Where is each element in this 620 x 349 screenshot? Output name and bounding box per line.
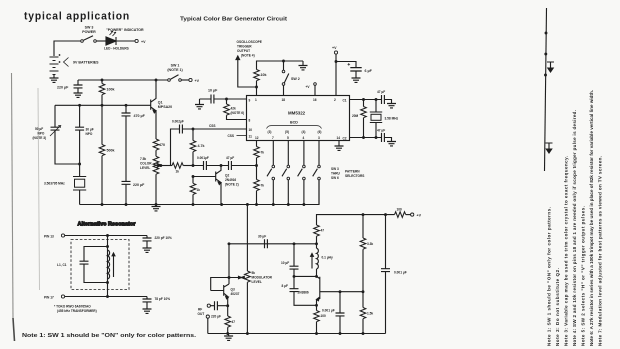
svg-text:0.001 µF: 0.001 µF — [322, 309, 335, 313]
svg-text:SW 1: SW 1 — [171, 64, 180, 68]
capacitor C1 tank — [80, 247, 108, 283]
wire CSS to pin 10 — [193, 128, 247, 130]
resistor 470 emitter — [153, 139, 159, 157]
capacitor 6uF top — [336, 62, 362, 79]
svg-text:30 µF: 30 µF — [86, 128, 94, 132]
node q2 collector — [220, 164, 223, 167]
svg-text:1k: 1k — [176, 170, 180, 174]
inductor 0.1uHy variable — [311, 244, 319, 277]
svg-text:RF: RF — [198, 308, 202, 312]
svg-text:COLOR: COLOR — [140, 162, 152, 166]
resistor 7k upper — [254, 141, 260, 166]
svg-text:1: 1 — [255, 98, 257, 102]
svg-text:4: 4 — [303, 136, 305, 140]
wire pin C2 right — [350, 137, 382, 139]
svg-text:220 µF: 220 µF — [211, 315, 221, 319]
scan line left edge dark tail — [13, 318, 15, 341]
wire +V rail modulator — [317, 215, 395, 225]
svg-text:(6): (6) — [318, 130, 322, 134]
svg-text:20M: 20M — [352, 114, 359, 118]
capacitor 0.002uF feedback — [171, 125, 194, 166]
svg-text:12: 12 — [255, 136, 259, 140]
capacitor 0.001uF q2 — [193, 161, 221, 170]
wire 30uF line — [228, 243, 317, 245]
node crystal top — [78, 163, 81, 166]
ground IC pin14 — [335, 141, 344, 151]
svg-text:3.58 MHz: 3.58 MHz — [385, 117, 399, 121]
svg-text:2: 2 — [334, 98, 336, 102]
wire rf bottom bus — [208, 333, 386, 335]
resistor 100 horizontal — [395, 212, 406, 218]
wire resonator vertical — [107, 236, 109, 297]
svg-text:7k: 7k — [261, 151, 265, 155]
svg-text:220 pF 10%: 220 pF 10% — [155, 236, 173, 240]
resistor 100k — [99, 80, 105, 105]
wire +V to IC — [335, 54, 337, 95]
node sw2 top — [282, 60, 285, 63]
svg-text:40237: 40237 — [231, 292, 240, 296]
svg-text:47: 47 — [321, 229, 325, 233]
svg-text:3.3k: 3.3k — [367, 242, 373, 246]
capacitor 220uF rf out — [210, 301, 227, 310]
ground 6uF — [352, 78, 361, 82]
svg-text:2N3866: 2N3866 — [298, 291, 309, 295]
resistor 1k horizontal — [172, 163, 193, 169]
wire to pin9 — [227, 98, 247, 100]
capacitor variable 50uF NPO — [50, 105, 80, 164]
svg-text:NPO: NPO — [86, 132, 93, 136]
terminal +V rail — [406, 213, 414, 216]
wire pin C1 right — [350, 99, 382, 101]
terminal +V pin16 stub — [314, 83, 317, 96]
svg-text:2N4916: 2N4916 — [225, 178, 236, 182]
capacitor 10uF pin9 — [200, 95, 227, 105]
svg-text:500k: 500k — [107, 149, 115, 153]
svg-text:47 µF: 47 µF — [377, 129, 385, 133]
svg-text:50 µF: 50 µF — [35, 127, 43, 131]
terminal RF OUT top — [207, 304, 210, 307]
svg-text:(3): (3) — [268, 130, 272, 134]
svg-text:10 µF: 10 µF — [281, 261, 289, 265]
ground 220pF — [143, 248, 152, 252]
svg-text:MM5322: MM5322 — [288, 111, 306, 116]
scan faint vertical line — [38, 88, 40, 290]
svg-text:1.5k: 1.5k — [367, 312, 373, 316]
svg-text:BCD: BCD — [290, 121, 298, 125]
svg-text:C2: C2 — [343, 136, 347, 140]
ground trigger line — [299, 61, 308, 70]
potentiometer 7.5k COLOR LEVEL — [153, 156, 172, 204]
capacitor 30uF — [265, 239, 268, 248]
node trigger — [255, 86, 258, 89]
inductor L1 tank — [108, 250, 115, 279]
resistor 42k — [224, 99, 247, 120]
wire bcd bracket — [267, 126, 322, 129]
svg-text:100k: 100k — [107, 88, 115, 92]
label CSS pin11 — [228, 134, 247, 138]
resistor 47 rail — [314, 225, 320, 244]
node css — [192, 128, 195, 131]
svg-text:9V BATTERIES: 9V BATTERIES — [73, 61, 99, 65]
svg-text:11: 11 — [249, 134, 253, 138]
node top bus junctions — [101, 79, 104, 82]
svg-text:(NOTE 3): (NOTE 3) — [33, 136, 47, 140]
svg-text:LED - HOLDERS: LED - HOLDERS — [104, 47, 129, 51]
ground 78pF — [143, 309, 152, 313]
ground 10uF — [195, 105, 204, 109]
resistor 1k q2 base — [190, 177, 196, 205]
wire q3 loop — [211, 244, 242, 291]
capacitor 220uF top-left — [74, 80, 83, 93]
svg-text:SW 2: SW 2 — [291, 77, 300, 81]
svg-text:100: 100 — [397, 208, 403, 212]
svg-text:PIN 17: PIN 17 — [44, 295, 54, 299]
svg-text:8: 8 — [249, 119, 251, 123]
svg-text:(NOTE 2): (NOTE 2) — [225, 183, 239, 187]
resistor 3.3k — [360, 215, 366, 292]
capacitor 47uF c2 — [382, 133, 392, 142]
switch SW3 — [81, 36, 97, 43]
svg-text:8 µF: 8 µF — [282, 284, 288, 288]
svg-text:PIN 13: PIN 13 — [44, 234, 54, 238]
svg-text:(4): (4) — [302, 130, 306, 134]
resistor 47 rf — [225, 306, 231, 334]
capacitor 470uF — [122, 105, 131, 181]
svg-text:(455 kHz TRANSFORMER): (455 kHz TRANSFORMER) — [57, 309, 97, 313]
crystal 3.58 MHz — [370, 100, 382, 138]
resistor 500k — [99, 105, 105, 204]
svg-text:(NOTE 6): (NOTE 6) — [231, 111, 245, 115]
potentiometer 5k MODULATOR LEVEL — [241, 271, 250, 334]
svg-text:5: 5 — [287, 136, 289, 140]
svg-text:7.5k: 7.5k — [140, 157, 146, 161]
svg-text:16: 16 — [313, 98, 317, 102]
svg-text:typical application: typical application — [24, 11, 130, 23]
svg-text:PATTERN: PATTERN — [345, 170, 360, 174]
svg-text:CSS: CSS — [209, 124, 216, 128]
transistor Q1 MPSA20 — [151, 80, 156, 139]
svg-text:3.563795 MHz: 3.563795 MHz — [44, 182, 65, 186]
svg-text:0.001 µF: 0.001 µF — [394, 271, 407, 275]
svg-text:L1, C1: L1, C1 — [57, 263, 67, 267]
ground rf bus — [224, 334, 233, 341]
capacitor 220pF resonator — [143, 236, 152, 249]
scan line left edge — [12, 73, 14, 318]
wire tank top — [294, 275, 317, 277]
wire trigger to pin1 — [256, 87, 258, 96]
capacitor 47uF q2 — [221, 161, 257, 170]
svg-text:470 µF: 470 µF — [134, 114, 146, 118]
svg-text:30 µF: 30 µF — [258, 235, 266, 239]
ground 47uF c2 — [387, 142, 396, 146]
crystal 3.563795 MHz — [73, 164, 86, 205]
terminal +V power — [135, 39, 138, 42]
svg-text:Typical Color Bar Generator Ci: Typical Color Bar Generator Circuit — [180, 17, 287, 23]
svg-text:SELECTORS: SELECTORS — [345, 174, 364, 178]
svg-text:10k: 10k — [261, 73, 267, 77]
terminal +V sw1 — [189, 78, 192, 81]
svg-text:(5): (5) — [285, 130, 289, 134]
svg-text:0.002µF: 0.002µF — [172, 120, 184, 124]
capacitor 78pF resonator — [143, 297, 152, 310]
svg-text:9: 9 — [249, 99, 251, 103]
svg-text:78 pF 10%: 78 pF 10% — [155, 297, 171, 301]
svg-text:0.1 µHy: 0.1 µHy — [322, 256, 333, 260]
transistor Q2 — [193, 166, 221, 205]
svg-text:NPO: NPO — [38, 132, 45, 136]
svg-text:LEVEL: LEVEL — [252, 280, 262, 284]
svg-text:+V: +V — [195, 79, 200, 83]
wire bottom-left bus — [80, 180, 319, 205]
node pin9 — [225, 98, 228, 101]
svg-text:3: 3 — [318, 136, 320, 140]
transistor Q4 2N3866 — [317, 276, 364, 305]
ground battery — [50, 78, 59, 82]
resistor 10k — [254, 61, 303, 87]
capacitor 220uF lower — [122, 181, 131, 204]
svg-text:470: 470 — [159, 143, 165, 147]
svg-text:+V: +V — [332, 46, 337, 50]
svg-text:5k: 5k — [252, 271, 256, 275]
svg-text:MODULATOR: MODULATOR — [252, 276, 273, 280]
svg-text:(NOTE 4): (NOTE 4) — [241, 54, 255, 58]
wire SW3 to LED — [97, 40, 106, 42]
op-amp U1 MM5322 IC body — [247, 96, 350, 141]
svg-text:TRIGGER: TRIGGER — [237, 45, 252, 49]
node 30uF line right — [315, 242, 318, 245]
ground right margin upper — [547, 62, 554, 72]
switch SW3 pattern — [267, 141, 275, 205]
terminal +V top — [334, 51, 337, 54]
svg-text:Note 3: Variable cap may be us: Note 3: Variable cap may be used to trim… — [564, 156, 569, 346]
node wiper line — [192, 164, 195, 167]
wire battery to SW3 — [54, 41, 80, 56]
svg-text:4.7k: 4.7k — [198, 144, 205, 148]
svg-text:47: 47 — [232, 320, 236, 324]
ground 220uF — [74, 93, 83, 97]
svg-text:10 µF: 10 µF — [208, 89, 218, 93]
svg-text:18: 18 — [282, 98, 286, 102]
LED power indicator — [106, 31, 135, 45]
svg-text:* TOKO RWO 6A6765AO: * TOKO RWO 6A6765AO — [54, 305, 91, 309]
svg-text:7: 7 — [272, 136, 274, 140]
svg-text:Note 5: SW 2 selects "H" or "V: Note 5: SW 2 selects "H" or "V" trigger … — [581, 206, 586, 346]
svg-text:Note 1: SW 1 should be "ON" on: Note 1: SW 1 should be "ON" only for col… — [547, 207, 552, 346]
wire top bus — [78, 79, 169, 81]
svg-text:220 µF: 220 µF — [133, 183, 145, 187]
wire mid bus — [55, 104, 151, 106]
resistor 20M — [361, 100, 367, 138]
svg-text:LEVEL: LEVEL — [140, 166, 150, 170]
svg-text:Q1: Q1 — [158, 101, 163, 105]
svg-text:+V: +V — [417, 214, 422, 218]
svg-text:C1: C1 — [343, 99, 347, 103]
ground bottom-left bus — [152, 205, 161, 211]
battery 9V cells — [50, 54, 69, 78]
svg-text:SW 3: SW 3 — [85, 26, 94, 30]
switch SW1 — [168, 75, 182, 81]
svg-text:Q3: Q3 — [231, 288, 235, 292]
svg-text:1k: 1k — [197, 188, 201, 192]
dashed box resonator — [71, 240, 129, 290]
switch SW2 — [282, 61, 289, 96]
svg-text:6 µF: 6 µF — [365, 69, 373, 73]
svg-text:POWER: POWER — [82, 30, 96, 34]
svg-text:Note 1: SW 1 should be "ON" on: Note 1: SW 1 should be "ON" only for col… — [22, 333, 197, 339]
svg-text:OSCILLOSCOPE: OSCILLOSCOPE — [237, 40, 262, 44]
switch SW4 pattern — [282, 141, 290, 205]
svg-text:+V: +V — [306, 85, 311, 89]
svg-text:Alternative Resonator: Alternative Resonator — [78, 222, 137, 228]
capacitor 8uF tank — [290, 276, 317, 305]
wire pin17 — [65, 296, 147, 298]
svg-text:0.001µF: 0.001µF — [197, 156, 209, 160]
terminal RF OUT bottom — [206, 315, 209, 334]
svg-text:47 µF: 47 µF — [377, 90, 385, 94]
svg-text:OUT: OUT — [198, 312, 205, 316]
svg-text:+V: +V — [141, 40, 146, 44]
wire SW1 to terminal — [181, 79, 189, 81]
svg-text:Note 2: Do not substitute Q2.: Note 2: Do not substitute Q2. — [555, 268, 560, 346]
capacitor 0.001uF base — [336, 292, 345, 334]
resistor 100 emitter — [314, 305, 320, 333]
transistor Q3 40237 — [211, 284, 229, 306]
svg-text:42k: 42k — [231, 107, 237, 111]
ground right margin lower — [546, 143, 553, 153]
svg-text:100: 100 — [321, 314, 327, 318]
svg-text:CSS: CSS — [228, 134, 235, 138]
capacitor 10uF tank — [290, 244, 299, 277]
svg-text:Note 6: A 27k resistor in seri: Note 6: A 27k resistor in series with a … — [589, 90, 594, 346]
resistor 4.7k — [190, 129, 196, 166]
svg-text:Q2: Q2 — [225, 174, 229, 178]
svg-text:Note 7: Modulation level adjus: Note 7: Modulation level adjusted for be… — [598, 156, 603, 346]
switch SW6 pattern — [313, 141, 321, 205]
svg-text:7k: 7k — [261, 184, 265, 188]
resistor 7k lower — [254, 166, 260, 205]
wire modulator feed — [246, 205, 248, 272]
wire right margin line — [545, 8, 547, 171]
svg-text:(NOTE 1): (NOTE 1) — [167, 68, 183, 72]
svg-text:47 µF: 47 µF — [226, 156, 234, 160]
svg-text:Note 4: SW 2 and 10k resistor: Note 4: SW 2 and 10k resistor on pins 18… — [572, 110, 577, 346]
svg-text:MPSA20: MPSA20 — [158, 105, 172, 109]
svg-text:SW 6: SW 6 — [331, 176, 339, 180]
capacitor 47uF c1 — [382, 95, 392, 104]
svg-text:THRU: THRU — [331, 172, 341, 176]
svg-text:220 µF: 220 µF — [57, 86, 69, 90]
node inductor bottom — [315, 275, 318, 278]
svg-text:10: 10 — [249, 128, 253, 132]
ground 47uF c1 — [387, 104, 396, 108]
capacitor 0.001uF rail — [379, 215, 391, 334]
wire pin13 — [65, 235, 147, 237]
svg-text:SW 3: SW 3 — [331, 167, 339, 171]
svg-text:14: 14 — [337, 136, 341, 140]
terminal oscilloscope trigger output — [236, 56, 257, 87]
capacitor 30uF NPO — [75, 105, 84, 164]
resistor 1.5k — [360, 292, 366, 334]
svg-text:"POWER" INDICATOR: "POWER" INDICATOR — [106, 28, 144, 32]
svg-text:OUTPUT: OUTPUT — [237, 49, 250, 53]
switch SW5 pattern — [298, 141, 306, 205]
